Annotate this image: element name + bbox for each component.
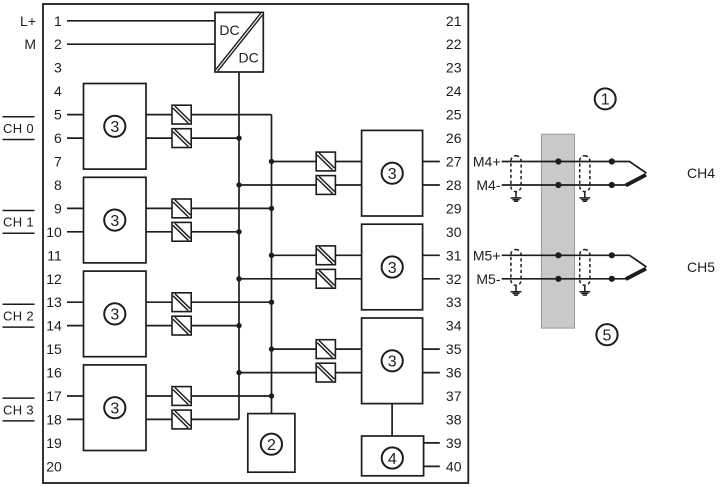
svg-text:20: 20	[46, 458, 62, 474]
wire block to isolator row 18	[146, 418, 172, 420]
svg-text:30: 30	[446, 224, 462, 240]
svg-text:27: 27	[446, 154, 462, 170]
svg-text:CH 1: CH 1	[3, 215, 34, 230]
shield bus bar (gray)	[541, 134, 574, 328]
svg-text:4: 4	[54, 83, 62, 99]
wire isolator to block row 36	[335, 372, 361, 374]
wire pin39 stub	[424, 442, 440, 444]
channel label CH 0	[3, 117, 35, 140]
wire isolator row 14 to bus1	[191, 325, 239, 327]
svg-text:32: 32	[446, 271, 462, 287]
isolation barrier row 14	[172, 316, 191, 335]
channel label CH 2	[3, 304, 35, 327]
wire pin28 stub	[423, 184, 440, 186]
isolation barrier row 32	[316, 269, 335, 288]
svg-text:DC: DC	[238, 50, 258, 66]
wire isolator row 6 to bus1	[191, 137, 239, 139]
shield capacitance M4 outer	[580, 156, 590, 192]
wire isolator to block row 28	[335, 184, 361, 186]
DC/DC converter U-PS	[215, 12, 263, 72]
svg-text:CH 3: CH 3	[3, 402, 34, 417]
svg-text:3: 3	[110, 213, 119, 230]
shield capacitance M5 inner	[511, 250, 521, 286]
input block U4 (3) CH3	[84, 365, 147, 451]
wire block3 to block4	[391, 404, 393, 437]
junction dots bus2	[269, 159, 274, 399]
svg-text:11: 11	[47, 247, 62, 263]
wire bus2 to isolator row 15	[272, 348, 317, 350]
diagnostics block (4)	[362, 436, 424, 476]
wire isolator row 10 to bus1	[191, 231, 239, 233]
svg-text:1: 1	[54, 13, 62, 29]
svg-text:2: 2	[54, 36, 62, 52]
wire pin2 M to DC/DC	[67, 43, 215, 45]
wire pin9 stub	[67, 207, 84, 209]
svg-text:DC: DC	[219, 22, 239, 38]
svg-text:4: 4	[388, 451, 397, 468]
svg-text:23: 23	[446, 60, 462, 76]
svg-text:5: 5	[603, 328, 612, 345]
svg-text:9: 9	[54, 200, 62, 216]
svg-text:3: 3	[388, 260, 397, 277]
wire isolator row 5 to bus2	[191, 114, 271, 116]
junction dots bus1	[236, 135, 241, 375]
backplane interface block (2)	[248, 414, 295, 473]
svg-text:M5-: M5-	[476, 271, 500, 287]
svg-text:36: 36	[446, 365, 462, 381]
wire isolator row 9 to bus2	[191, 207, 271, 209]
svg-text:CH5: CH5	[687, 259, 715, 275]
svg-text:2: 2	[267, 437, 276, 454]
svg-text:29: 29	[446, 200, 462, 216]
svg-text:33: 33	[446, 294, 462, 310]
wire pin32 stub	[423, 278, 440, 280]
isolation barrier row 13	[172, 293, 191, 312]
output block U7 (3) CH6	[362, 318, 423, 404]
wire isolator row 17 to bus2	[191, 395, 271, 397]
wire bus1 to isolator row 16	[239, 372, 316, 374]
wire block to isolator row 13	[146, 301, 172, 303]
isolation barrier row 31	[316, 246, 335, 265]
svg-text:19: 19	[46, 435, 62, 451]
svg-text:15: 15	[46, 341, 62, 357]
wire pin35 stub	[423, 348, 440, 350]
callout (5)	[596, 324, 617, 345]
isolation barrier row 18	[172, 410, 191, 429]
svg-text:39: 39	[446, 435, 462, 451]
svg-text:L+: L+	[20, 13, 36, 29]
svg-text:3: 3	[110, 401, 119, 418]
svg-text:37: 37	[446, 388, 462, 404]
svg-text:3: 3	[388, 354, 397, 371]
module boundary box	[43, 4, 468, 483]
wire pin27 stub	[423, 161, 440, 163]
svg-text:22: 22	[446, 36, 462, 52]
wire bus1 to isolator row 8	[239, 184, 316, 186]
svg-text:3: 3	[110, 119, 119, 136]
wire isolator to block row 31	[335, 254, 361, 256]
isolation barrier row 10	[172, 222, 191, 241]
svg-text:31: 31	[446, 247, 462, 263]
channel label CH 1	[3, 211, 35, 234]
wire block to isolator row 5	[146, 114, 172, 116]
channel label CH 3	[3, 398, 35, 421]
isolation barrier row 5	[172, 105, 191, 124]
svg-text:13: 13	[46, 294, 62, 310]
input block U3 (3) CH2	[84, 271, 147, 357]
svg-text:CH4: CH4	[687, 165, 715, 181]
svg-text:34: 34	[446, 318, 462, 334]
junction dots M4	[555, 158, 615, 188]
wire isolator row 18 to bus1	[191, 418, 239, 420]
callout (1)	[595, 88, 616, 109]
ground symbol M5 outer	[579, 285, 590, 295]
svg-text:26: 26	[446, 130, 462, 146]
cable arrow thick stroke CH5	[626, 269, 646, 280]
isolation barrier row 6	[172, 129, 191, 148]
terminal pin numbers 21-40	[446, 13, 462, 475]
svg-text:CH 0: CH 0	[3, 121, 34, 136]
svg-text:M4-: M4-	[476, 177, 500, 193]
svg-text:25: 25	[446, 107, 462, 123]
svg-text:M: M	[24, 36, 36, 52]
input block U2 (3) CH1	[84, 177, 147, 263]
wire bus2 to isolator row 7	[272, 161, 317, 163]
svg-text:10: 10	[46, 224, 62, 240]
wire M4-	[502, 184, 626, 186]
svg-text:16: 16	[46, 365, 62, 381]
wire pin17 stub	[67, 395, 84, 397]
svg-text:3: 3	[388, 166, 397, 183]
svg-text:40: 40	[446, 458, 462, 474]
wire isolator to block row 32	[335, 278, 361, 280]
svg-text:M5+: M5+	[473, 247, 501, 263]
svg-text:21: 21	[446, 13, 462, 29]
wire pin1 L+ to DC/DC	[67, 20, 215, 22]
wire pin40 stub	[424, 465, 440, 467]
svg-text:3: 3	[54, 60, 62, 76]
wire block to isolator row 14	[146, 325, 172, 327]
wire bus2 vertical	[271, 115, 273, 414]
svg-text:6: 6	[54, 130, 62, 146]
ground symbol M4 outer	[579, 192, 590, 202]
ground symbol M5 inner	[511, 285, 522, 295]
svg-text:35: 35	[446, 341, 462, 357]
ground symbol M4 inner	[511, 192, 522, 202]
wire pin10 stub	[67, 231, 84, 233]
wire bus1 to isolator row 12	[239, 278, 316, 280]
isolation barrier row 17	[172, 387, 191, 406]
wire isolator row 13 to bus2	[191, 301, 271, 303]
svg-text:CH 2: CH 2	[3, 309, 34, 324]
shield capacitance M4 inner	[511, 156, 521, 192]
junction dots M5	[555, 252, 615, 282]
svg-text:1: 1	[601, 92, 610, 109]
wire M5-	[502, 278, 626, 280]
input block U1 (3) CH0	[84, 84, 147, 170]
wire block to isolator row 6	[146, 137, 172, 139]
svg-text:3: 3	[110, 307, 119, 324]
wire M4+	[502, 162, 647, 174]
shield capacitance M5 outer	[580, 250, 590, 286]
wire isolator to block row 27	[335, 161, 361, 163]
svg-text:17: 17	[46, 388, 62, 404]
isolation barrier row 28	[316, 176, 335, 195]
cable arrow thick stroke CH4	[626, 175, 646, 186]
wire pin6 stub	[67, 137, 84, 139]
wire block to isolator row 17	[146, 395, 172, 397]
svg-text:8: 8	[54, 177, 62, 193]
wire pin36 stub	[423, 372, 440, 374]
wire pin31 stub	[423, 254, 440, 256]
isolation barrier row 9	[172, 199, 191, 218]
svg-text:18: 18	[46, 411, 62, 427]
svg-text:M4+: M4+	[473, 154, 501, 170]
wire block to isolator row 10	[146, 231, 172, 233]
wire bus1 vertical from DC/DC	[238, 72, 240, 419]
output block U6 (3) CH5	[362, 224, 423, 310]
svg-text:14: 14	[46, 318, 62, 334]
isolation barrier row 27	[316, 152, 335, 171]
terminal pin numbers 1-20	[46, 13, 62, 475]
svg-text:28: 28	[446, 177, 462, 193]
wire pin5 stub	[67, 114, 84, 116]
svg-text:5: 5	[54, 107, 62, 123]
isolation barrier row 35	[316, 340, 335, 359]
output block U5 (3) CH4	[362, 130, 423, 216]
svg-text:24: 24	[446, 83, 462, 99]
wire block to isolator row 9	[146, 207, 172, 209]
wire pin14 stub	[67, 325, 84, 327]
wire isolator to block row 35	[335, 348, 361, 350]
wire bus2 to isolator row 11	[272, 254, 317, 256]
svg-text:7: 7	[54, 154, 62, 170]
wire pin13 stub	[67, 301, 84, 303]
wire pin18 stub	[67, 418, 84, 420]
isolation barrier row 36	[316, 363, 335, 382]
svg-text:38: 38	[446, 411, 462, 427]
wire M5+	[502, 255, 647, 267]
svg-text:12: 12	[46, 271, 62, 287]
